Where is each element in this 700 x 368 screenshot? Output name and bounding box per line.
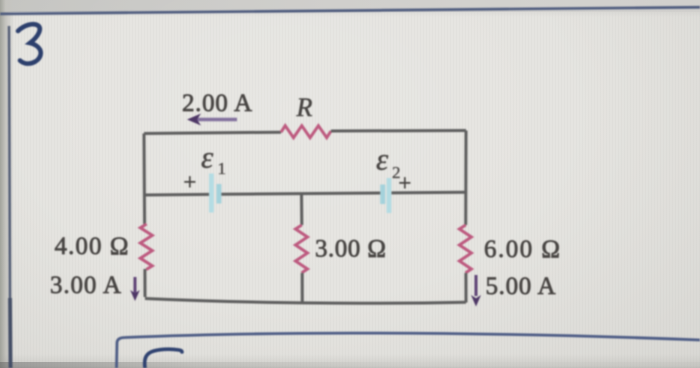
label E1 (script emf symbol) xyxy=(201,140,226,179)
resistor 3.00 ohm (middle branch zigzag) xyxy=(296,225,308,273)
label 4.00 ohm xyxy=(55,233,129,260)
resistor 6.00 ohm (right branch zigzag) xyxy=(459,225,471,273)
svg-text:3.00 Ω: 3.00 Ω xyxy=(315,236,386,263)
label E2 (script emf symbol) xyxy=(376,142,401,183)
wire: top, right segment (resistor R to top-right corner) xyxy=(331,129,466,133)
wire: top, left segment (node a to resistor R) xyxy=(144,132,281,133)
battery E1 short negative plate xyxy=(216,184,221,204)
left vertical margin rule xyxy=(9,26,11,368)
svg-text:1: 1 xyxy=(218,159,227,178)
current arrow for 5.00 A (points down) xyxy=(471,275,481,307)
vignette top band above rule xyxy=(0,0,700,12)
wire: middle horizontal (node a to node b through batteries) xyxy=(144,193,210,197)
label R xyxy=(296,93,313,122)
wire: middle horizontal from battery E2 to node b (right wire) xyxy=(392,191,466,195)
current arrow for 3.00 A (points down) xyxy=(130,277,140,301)
handwritten problem number 3 xyxy=(18,24,41,63)
battery E2 short negative plate xyxy=(380,185,385,205)
wire: middle horizontal between battery E1 and battery E2 xyxy=(221,193,382,194)
plus sign for E1 polarity xyxy=(183,170,197,196)
svg-text:R: R xyxy=(296,93,313,122)
wire: left branch lower (resistor to bottom-left corner) xyxy=(143,269,146,297)
top horizontal rule line of worksheet xyxy=(0,7,700,14)
svg-text:+: + xyxy=(398,171,412,197)
svg-text:6.00 Ω: 6.00 Ω xyxy=(484,236,560,263)
label 5.00 A (current in right branch) xyxy=(486,273,556,300)
wire: right branch lower (resistor to bottom-right corner) xyxy=(464,273,467,303)
left edge shadow xyxy=(0,0,14,368)
bottom edge band xyxy=(0,354,700,368)
svg-text:ε: ε xyxy=(201,140,214,175)
resistor R (zigzag on top wire) xyxy=(281,126,331,138)
label 2.00 A (current in top branch) xyxy=(182,90,252,117)
svg-text:4.00 Ω: 4.00 Ω xyxy=(55,233,129,260)
battery E2 long positive plate xyxy=(387,178,392,213)
handwritten curve inside answer box xyxy=(145,349,182,368)
svg-text:5.00 A: 5.00 A xyxy=(486,273,556,300)
svg-text:+: + xyxy=(183,170,197,196)
wire: bottom (bottom-left corner to bottom-right corner) xyxy=(145,299,466,304)
plus sign for E2 polarity xyxy=(398,171,412,197)
svg-text:2.00 A: 2.00 A xyxy=(182,90,252,117)
label 6.00 ohm xyxy=(484,236,560,263)
wire: left branch upper (top-left corner down to resistor) xyxy=(143,134,147,225)
battery E1 long positive plate xyxy=(209,174,214,213)
resistor 4.00 ohm (left branch zigzag) xyxy=(140,224,152,270)
current arrow for 2.00 A (points left) xyxy=(187,114,237,126)
svg-text:ε: ε xyxy=(376,142,389,177)
wire: middle vertical branch upper (junction to resistor) xyxy=(300,194,303,225)
answer box below (rounded corner outline) xyxy=(117,333,700,368)
wire: right branch upper (top-right corner to resistor) xyxy=(464,131,467,226)
bottom edge band left-dark portion xyxy=(0,362,700,368)
label 3.00 ohm xyxy=(315,236,386,263)
wire: middle vertical branch lower (resistor to bottom wire) xyxy=(301,273,304,303)
svg-text:3.00 A: 3.00 A xyxy=(50,272,121,299)
label 3.00 A (current in left branch) xyxy=(50,272,121,299)
